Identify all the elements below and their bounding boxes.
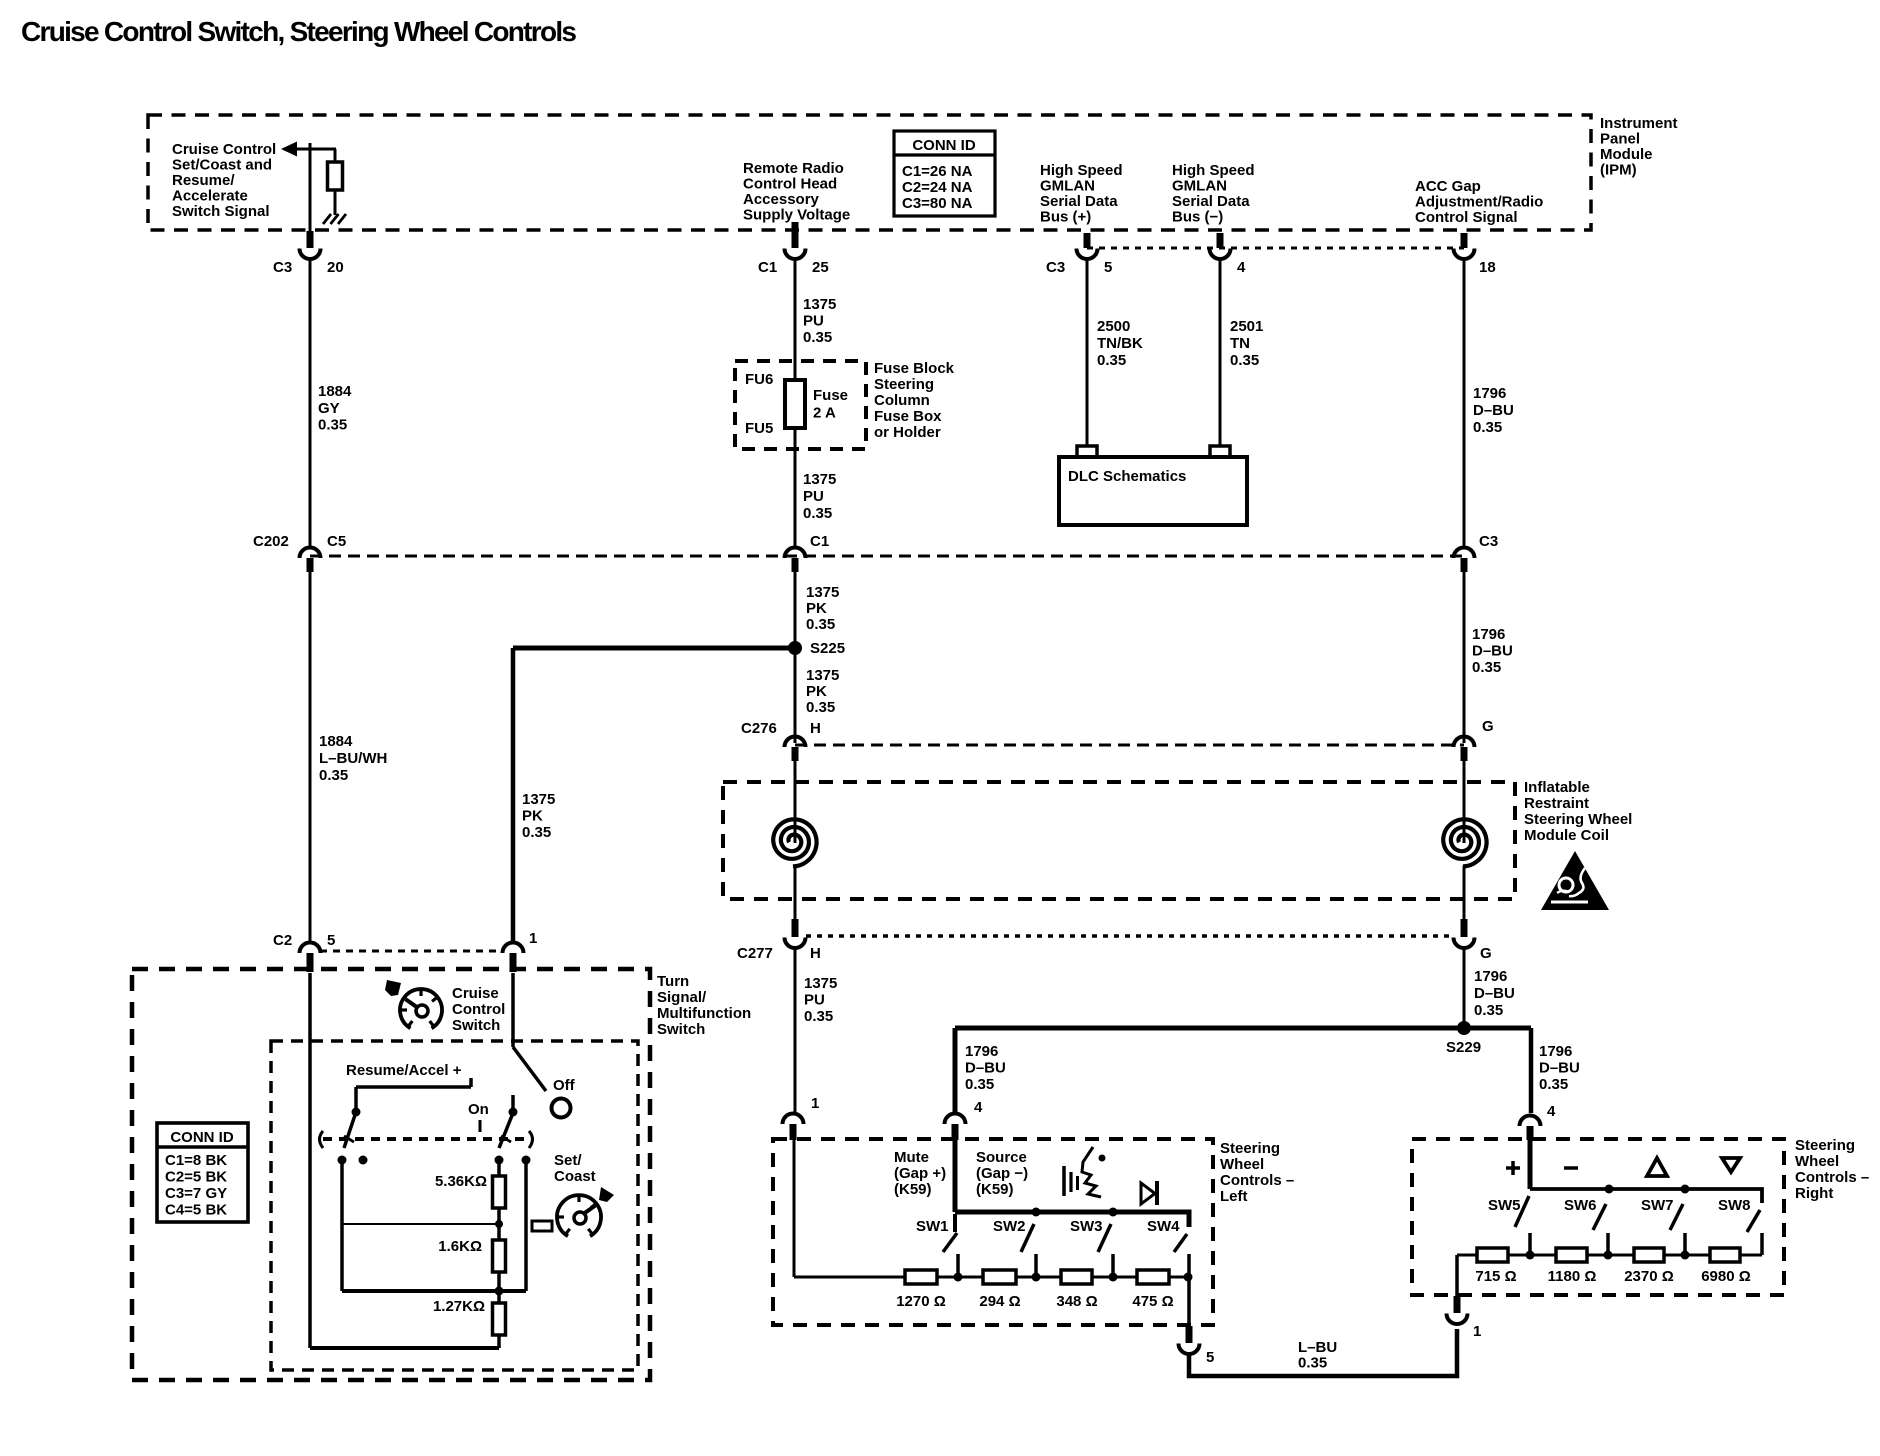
svg-text:Adjustment/Radio: Adjustment/Radio xyxy=(1415,194,1543,211)
svg-text:SW2: SW2 xyxy=(993,1218,1026,1235)
svg-text:Control: Control xyxy=(452,1001,505,1018)
svg-text:Wheel: Wheel xyxy=(1795,1153,1839,1170)
svg-text:Fuse Box: Fuse Box xyxy=(874,408,942,425)
svg-text:0.35: 0.35 xyxy=(803,505,832,522)
svg-text:Turn: Turn xyxy=(657,973,689,990)
svg-text:Source: Source xyxy=(976,1149,1027,1166)
svg-text:D–BU: D–BU xyxy=(1472,643,1513,660)
svg-text:Instrument: Instrument xyxy=(1600,115,1678,132)
svg-text:0.35: 0.35 xyxy=(1230,352,1259,369)
svg-text:Set/Coast and: Set/Coast and xyxy=(172,157,272,174)
svg-text:348 Ω: 348 Ω xyxy=(1056,1293,1097,1310)
svg-text:Bus (+): Bus (+) xyxy=(1040,209,1091,226)
svg-text:Fuse Block: Fuse Block xyxy=(874,360,955,377)
svg-text:Column: Column xyxy=(874,392,930,409)
svg-text:Right: Right xyxy=(1795,1185,1833,1202)
svg-text:High Speed: High Speed xyxy=(1040,162,1123,179)
svg-text:C1=26 NA: C1=26 NA xyxy=(902,163,973,180)
svg-text:SW4: SW4 xyxy=(1147,1218,1180,1235)
svg-text:Signal/: Signal/ xyxy=(657,989,707,1006)
svg-text:1375: 1375 xyxy=(804,975,837,992)
svg-text:475 Ω: 475 Ω xyxy=(1132,1293,1173,1310)
svg-text:18: 18 xyxy=(1479,259,1496,276)
svg-text:0.35: 0.35 xyxy=(1097,352,1126,369)
svg-text:SW8: SW8 xyxy=(1718,1197,1751,1214)
svg-text:25: 25 xyxy=(812,259,829,276)
svg-text:Steering: Steering xyxy=(874,376,934,393)
svg-text:Steering: Steering xyxy=(1795,1137,1855,1154)
svg-text:Controls –: Controls – xyxy=(1220,1172,1294,1189)
svg-text:PU: PU xyxy=(803,313,824,330)
svg-text:Wheel: Wheel xyxy=(1220,1156,1264,1173)
svg-text:SW5: SW5 xyxy=(1488,1197,1521,1214)
svg-text:H: H xyxy=(810,945,821,962)
svg-text:TN: TN xyxy=(1230,335,1250,352)
svg-text:S229: S229 xyxy=(1446,1039,1481,1056)
svg-text:TN/BK: TN/BK xyxy=(1097,335,1143,352)
svg-text:ACC Gap: ACC Gap xyxy=(1415,178,1481,195)
svg-text:On: On xyxy=(468,1101,489,1118)
svg-text:L–BU: L–BU xyxy=(1298,1339,1337,1356)
svg-text:CONN ID: CONN ID xyxy=(912,137,976,154)
svg-text:Cruise: Cruise xyxy=(452,985,499,1002)
svg-text:5: 5 xyxy=(1104,259,1112,276)
svg-text:C2: C2 xyxy=(273,932,292,949)
svg-text:Steering Wheel: Steering Wheel xyxy=(1524,811,1632,828)
svg-text:0.35: 0.35 xyxy=(522,824,551,841)
svg-text:Module: Module xyxy=(1600,146,1653,163)
svg-text:1.27KΩ: 1.27KΩ xyxy=(433,1298,485,1315)
svg-text:C3: C3 xyxy=(273,259,292,276)
svg-text:Cruise Control Switch, Steerin: Cruise Control Switch, Steering Wheel Co… xyxy=(21,16,577,47)
svg-text:Controls –: Controls – xyxy=(1795,1169,1869,1186)
svg-text:1375: 1375 xyxy=(522,791,555,808)
svg-text:Accelerate: Accelerate xyxy=(172,188,248,205)
svg-text:C1: C1 xyxy=(758,259,777,276)
svg-text:0.35: 0.35 xyxy=(318,417,347,434)
svg-text:SW7: SW7 xyxy=(1641,1197,1674,1214)
svg-text:Steering: Steering xyxy=(1220,1140,1280,1157)
svg-text:C202: C202 xyxy=(253,533,289,550)
svg-text:20: 20 xyxy=(327,259,344,276)
svg-text:6980 Ω: 6980 Ω xyxy=(1701,1268,1751,1285)
svg-text:G: G xyxy=(1480,945,1492,962)
svg-text:715 Ω: 715 Ω xyxy=(1475,1268,1516,1285)
svg-text:Off: Off xyxy=(553,1077,576,1094)
svg-text:Bus (−): Bus (−) xyxy=(1172,209,1223,226)
svg-text:Switch: Switch xyxy=(452,1017,500,1034)
svg-text:(IPM): (IPM) xyxy=(1600,162,1637,179)
svg-text:5: 5 xyxy=(327,932,335,949)
svg-text:Multifunction: Multifunction xyxy=(657,1005,751,1022)
svg-text:SW1: SW1 xyxy=(916,1218,949,1235)
svg-text:0.35: 0.35 xyxy=(804,1008,833,1025)
svg-text:High Speed: High Speed xyxy=(1172,162,1255,179)
svg-text:1796: 1796 xyxy=(1539,1043,1572,1060)
svg-text:(Gap +): (Gap +) xyxy=(894,1165,946,1182)
svg-text:C1=8 BK: C1=8 BK xyxy=(165,1152,227,1169)
svg-text:C4=5 BK: C4=5 BK xyxy=(165,1202,227,1219)
svg-text:D–BU: D–BU xyxy=(1474,985,1515,1002)
svg-text:Switch Signal: Switch Signal xyxy=(172,203,270,220)
svg-text:Resume/: Resume/ xyxy=(172,172,235,189)
svg-text:(Gap −): (Gap −) xyxy=(976,1165,1028,1182)
svg-text:2370 Ω: 2370 Ω xyxy=(1624,1268,1674,1285)
svg-text:H: H xyxy=(810,720,821,737)
svg-text:SW6: SW6 xyxy=(1564,1197,1597,1214)
svg-text:0.35: 0.35 xyxy=(1539,1076,1568,1093)
svg-text:C3=7 GY: C3=7 GY xyxy=(165,1185,227,1202)
svg-text:4: 4 xyxy=(1547,1103,1556,1120)
svg-text:Fuse: Fuse xyxy=(813,387,848,404)
svg-text:1884: 1884 xyxy=(318,383,352,400)
svg-text:Control Signal: Control Signal xyxy=(1415,209,1518,226)
svg-text:C276: C276 xyxy=(741,720,777,737)
svg-text:FU6: FU6 xyxy=(745,371,773,388)
svg-text:or Holder: or Holder xyxy=(874,424,941,441)
svg-text:GMLAN: GMLAN xyxy=(1172,178,1227,195)
svg-text:1270 Ω: 1270 Ω xyxy=(896,1293,946,1310)
svg-text:0.35: 0.35 xyxy=(1298,1355,1327,1372)
svg-text:Panel: Panel xyxy=(1600,131,1640,148)
svg-text:S225: S225 xyxy=(810,640,845,657)
svg-text:0.35: 0.35 xyxy=(803,329,832,346)
svg-text:1796: 1796 xyxy=(1473,385,1506,402)
svg-text:294 Ω: 294 Ω xyxy=(979,1293,1020,1310)
svg-text:C1: C1 xyxy=(810,533,829,550)
svg-text:Switch: Switch xyxy=(657,1021,705,1038)
svg-text:(K59): (K59) xyxy=(894,1181,932,1198)
svg-text:C5: C5 xyxy=(327,533,346,550)
svg-text:C2=5 BK: C2=5 BK xyxy=(165,1169,227,1186)
svg-text:PK: PK xyxy=(806,683,827,700)
svg-text:D–BU: D–BU xyxy=(1539,1060,1580,1077)
svg-text:PU: PU xyxy=(803,488,824,505)
svg-text:Module Coil: Module Coil xyxy=(1524,827,1609,844)
svg-text:Cruise Control: Cruise Control xyxy=(172,141,276,158)
svg-text:Set/: Set/ xyxy=(554,1152,582,1169)
svg-text:1884: 1884 xyxy=(319,733,353,750)
svg-text:2500: 2500 xyxy=(1097,318,1130,335)
svg-text:PK: PK xyxy=(806,600,827,617)
svg-text:C3=80 NA: C3=80 NA xyxy=(902,195,973,212)
svg-text:CONN ID: CONN ID xyxy=(170,1129,234,1146)
svg-text:Serial Data: Serial Data xyxy=(1172,193,1250,210)
svg-text:2501: 2501 xyxy=(1230,318,1263,335)
svg-text:1796: 1796 xyxy=(1474,968,1507,985)
svg-text:L–BU/WH: L–BU/WH xyxy=(319,750,387,767)
svg-text:1180 Ω: 1180 Ω xyxy=(1548,1268,1597,1285)
svg-text:0.35: 0.35 xyxy=(319,767,348,784)
svg-text:1796: 1796 xyxy=(965,1043,998,1060)
svg-text:Inflatable: Inflatable xyxy=(1524,779,1590,796)
svg-text:D–BU: D–BU xyxy=(1473,402,1514,419)
svg-text:1375: 1375 xyxy=(806,584,839,601)
svg-text:Control Head: Control Head xyxy=(743,176,837,193)
svg-text:1375: 1375 xyxy=(803,296,836,313)
svg-text:1: 1 xyxy=(811,1095,819,1112)
svg-text:1: 1 xyxy=(529,930,537,947)
svg-text:0.35: 0.35 xyxy=(1474,1002,1503,1019)
svg-text:0.35: 0.35 xyxy=(806,616,835,633)
svg-text:Mute: Mute xyxy=(894,1149,929,1166)
svg-text:SW3: SW3 xyxy=(1070,1218,1103,1235)
svg-text:Serial Data: Serial Data xyxy=(1040,193,1118,210)
svg-text:GMLAN: GMLAN xyxy=(1040,178,1095,195)
svg-text:4: 4 xyxy=(1237,259,1246,276)
svg-text:1: 1 xyxy=(1473,1323,1481,1340)
svg-text:Coast: Coast xyxy=(554,1168,596,1185)
svg-text:Supply Voltage: Supply Voltage xyxy=(743,207,850,224)
svg-text:1796: 1796 xyxy=(1472,626,1505,643)
svg-text:C3: C3 xyxy=(1046,259,1065,276)
svg-text:Resume/Accel +: Resume/Accel + xyxy=(346,1062,462,1079)
svg-text:D–BU: D–BU xyxy=(965,1060,1006,1077)
svg-text:4: 4 xyxy=(974,1099,983,1116)
svg-text:(K59): (K59) xyxy=(976,1181,1014,1198)
svg-text:FU5: FU5 xyxy=(745,420,773,437)
svg-text:G: G xyxy=(1482,718,1494,735)
svg-text:C3: C3 xyxy=(1479,533,1498,550)
svg-text:5.36KΩ: 5.36KΩ xyxy=(435,1173,487,1190)
svg-text:Restraint: Restraint xyxy=(1524,795,1589,812)
svg-text:Remote Radio: Remote Radio xyxy=(743,160,844,177)
svg-text:PK: PK xyxy=(522,808,543,825)
svg-text:1375: 1375 xyxy=(806,667,839,684)
svg-text:Accessory: Accessory xyxy=(743,191,820,208)
svg-text:Left: Left xyxy=(1220,1188,1248,1205)
svg-text:1.6KΩ: 1.6KΩ xyxy=(438,1238,482,1255)
svg-text:GY: GY xyxy=(318,400,340,417)
svg-text:0.35: 0.35 xyxy=(806,699,835,716)
svg-text:DLC Schematics: DLC Schematics xyxy=(1068,468,1186,485)
svg-text:1375: 1375 xyxy=(803,471,836,488)
svg-text:PU: PU xyxy=(804,992,825,1009)
svg-text:0.35: 0.35 xyxy=(1473,419,1502,436)
svg-text:5: 5 xyxy=(1206,1349,1214,1366)
svg-text:0.35: 0.35 xyxy=(1472,659,1501,676)
svg-text:2 A: 2 A xyxy=(813,405,836,422)
svg-text:C2=24 NA: C2=24 NA xyxy=(902,179,973,196)
svg-text:0.35: 0.35 xyxy=(965,1076,994,1093)
svg-text:C277: C277 xyxy=(737,945,773,962)
